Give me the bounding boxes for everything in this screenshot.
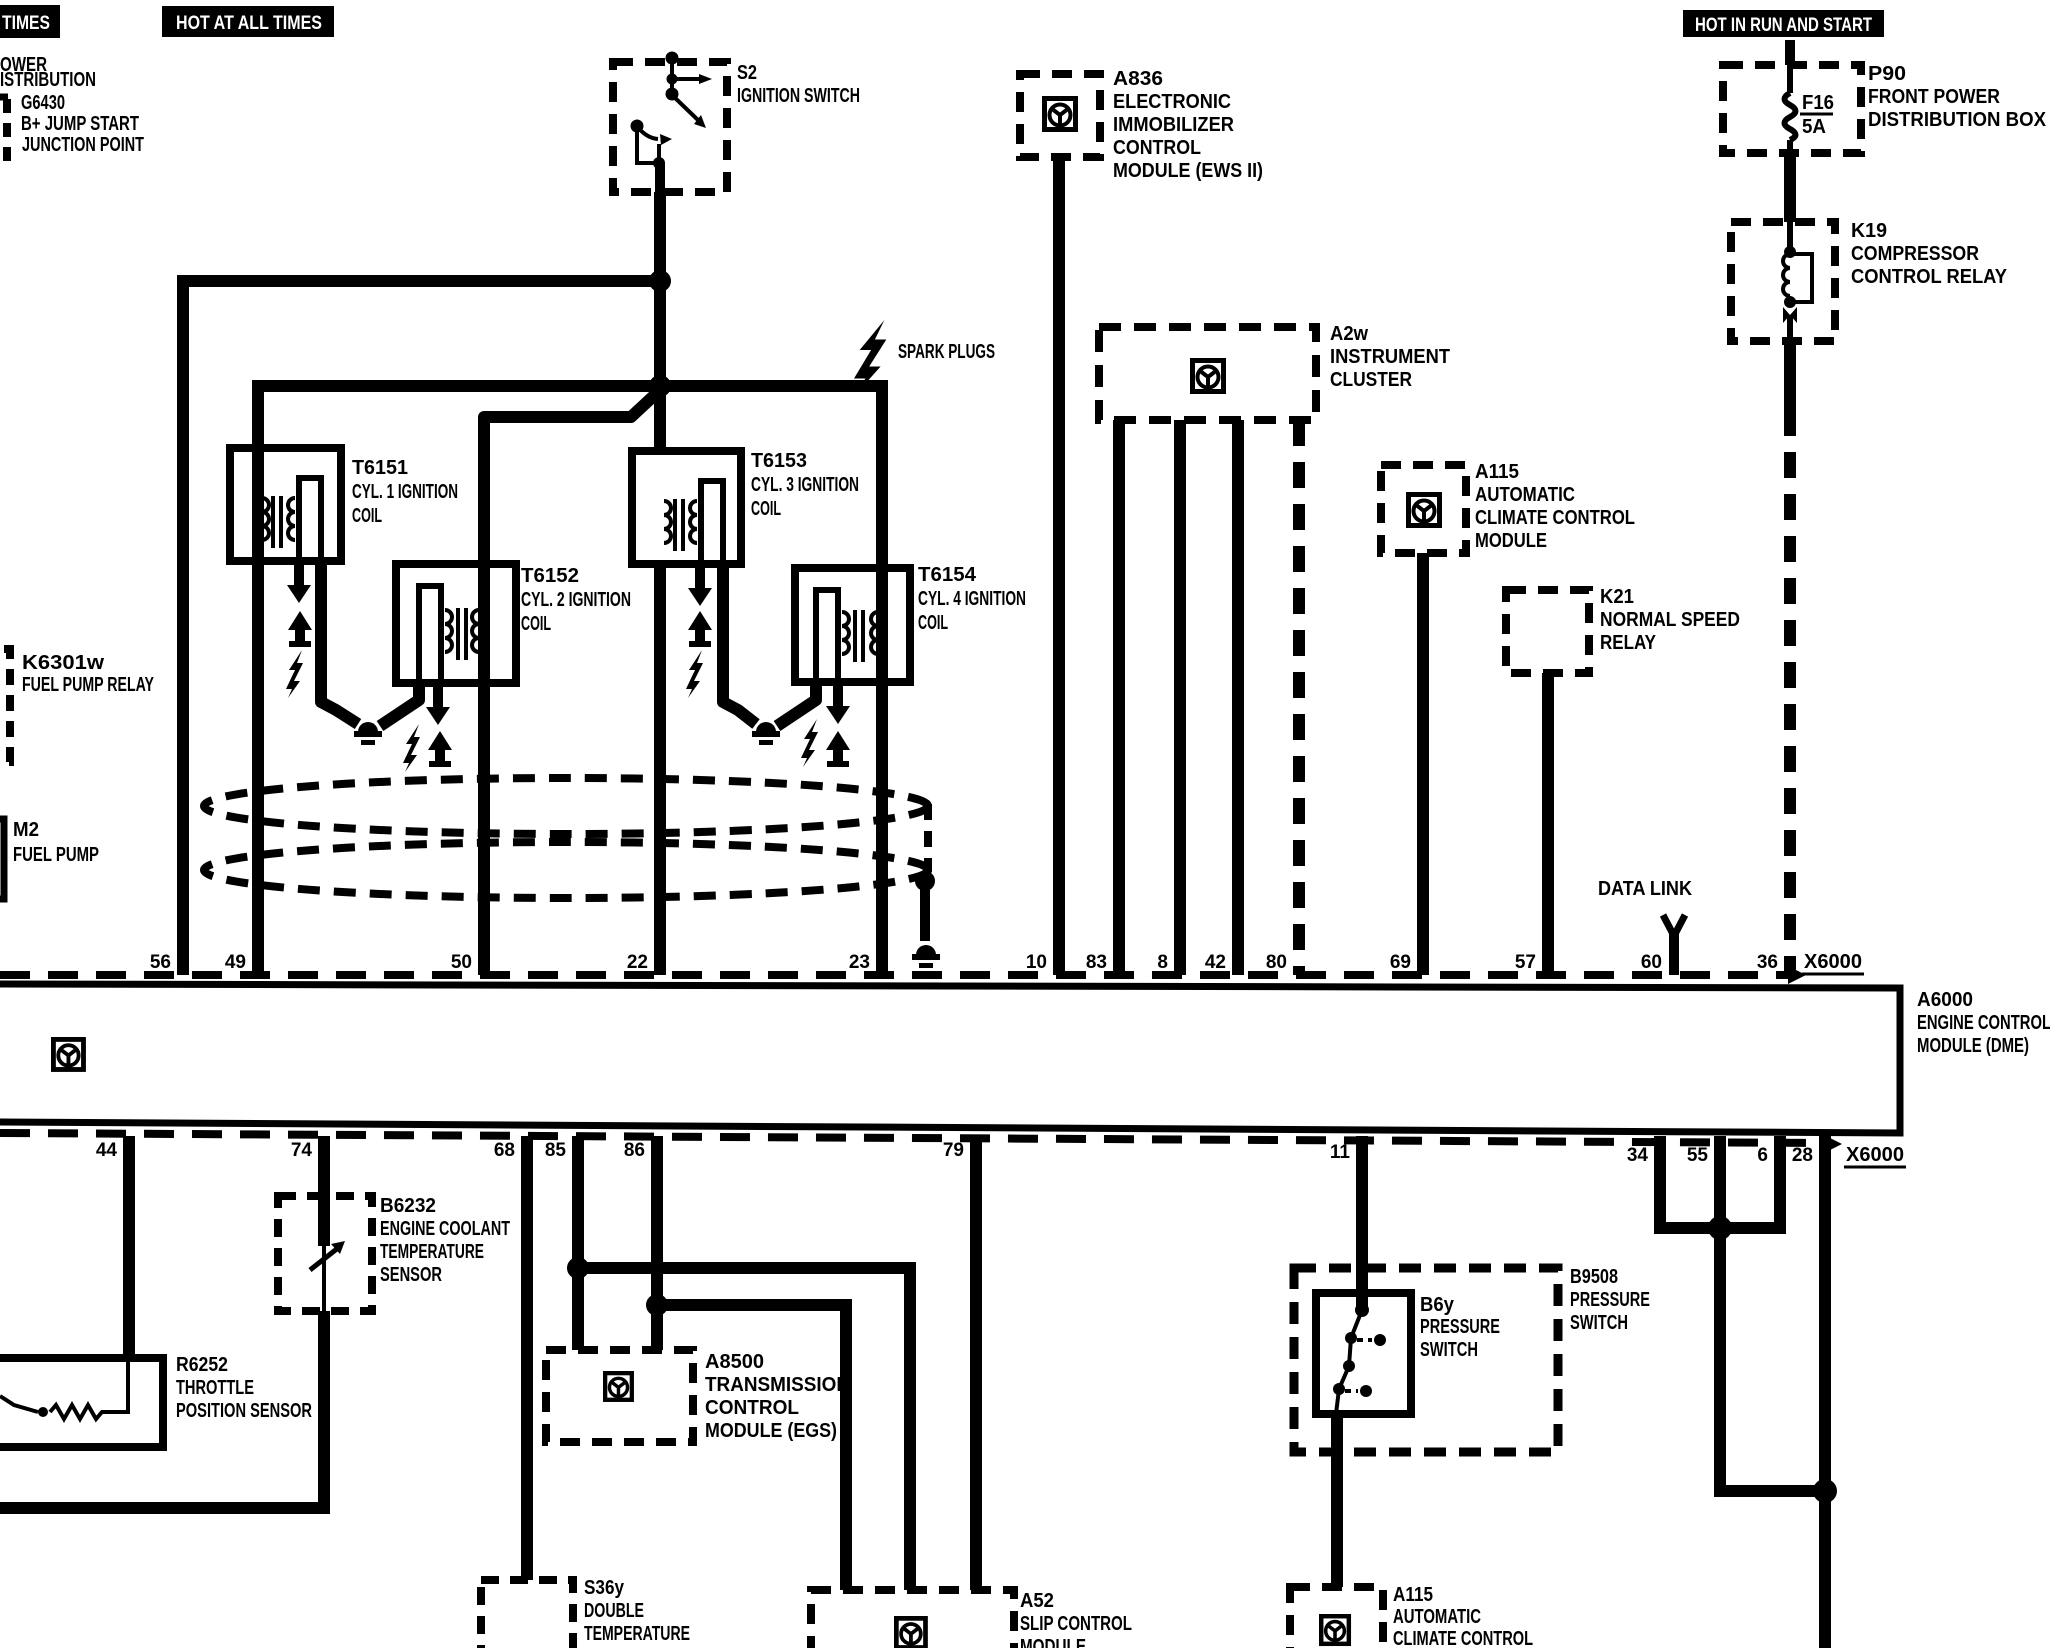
label T6153 CYL. 3 IGNITION COIL (751, 450, 859, 520)
node: junction on pin 28 wire (1813, 1479, 1837, 1503)
svg-text:10: 10 (1026, 952, 1047, 973)
wire: pin 6 stub (1774, 1136, 1786, 1222)
label A6000 ENGINE CONTROL MODULE (DME) (1917, 989, 2050, 1057)
wire: T6153 secondary to ground (723, 564, 756, 724)
spark bolt (T6154) (801, 719, 818, 767)
svg-text:PRESSURE: PRESSURE (1570, 1289, 1650, 1311)
svg-text:F16: F16 (1802, 92, 1834, 114)
wire: pin 68 to S36y (521, 1136, 533, 1580)
svg-text:A6000: A6000 (1917, 989, 1973, 1011)
svg-text:CONTROL: CONTROL (705, 1397, 799, 1419)
svg-text:60: 60 (1641, 952, 1662, 973)
node: junction 55 (1708, 1216, 1732, 1240)
svg-text:83: 83 (1086, 952, 1107, 973)
svg-text:MODULE: MODULE (1020, 1636, 1086, 1648)
svg-text:NORMAL SPEED: NORMAL SPEED (1600, 609, 1740, 631)
svg-text:R6252: R6252 (176, 1354, 228, 1376)
svg-text:G6430: G6430 (21, 92, 65, 114)
svg-text:K19: K19 (1851, 220, 1887, 242)
X6000 connector line (top, dashed) (0, 971, 1792, 979)
ignition coil T6154 box (795, 568, 910, 682)
spark bolt (T6152) (403, 724, 420, 772)
relay K21 (dashed box) (1506, 590, 1589, 673)
wire: T6153 primary down to pin 22 (654, 564, 666, 975)
label K19 COMPRESSOR CONTROL RELAY (1851, 220, 2008, 288)
node: X6000 bottom arrowhead (1824, 1135, 1842, 1153)
svg-text:IMMOBILIZER: IMMOBILIZER (1113, 114, 1234, 136)
svg-text:A2w: A2w (1330, 323, 1368, 345)
svg-text:CYL. 4 IGNITION: CYL. 4 IGNITION (918, 588, 1026, 610)
wire: pin 85 to A8500 (572, 1136, 584, 1350)
svg-text:B6232: B6232 (380, 1195, 436, 1217)
svg-text:SENSOR: SENSOR (380, 1264, 442, 1286)
node: loom ground junction (915, 871, 935, 891)
wire: loom right edge (dashed) (924, 804, 932, 872)
spark plug arrow down (T6152) (426, 683, 450, 725)
wire: pin 28 down to edge (1819, 1136, 1831, 1648)
wire: branch 85 to A52 (578, 1268, 910, 1590)
svg-text:M2: M2 (13, 819, 39, 841)
wire: T6154 secondary to ground (777, 682, 816, 726)
wire: pin 11 to B6y (1356, 1136, 1368, 1310)
svg-text:B+ JUMP START: B+ JUMP START (21, 113, 139, 135)
svg-text:A836: A836 (1113, 68, 1163, 90)
compressor control relay K19 (dashed box) (1731, 222, 1835, 341)
spark plug arrow up (T6153) (688, 611, 712, 647)
svg-text:T6151: T6151 (352, 457, 408, 479)
svg-text:TRANSMISSION: TRANSMISSION (705, 1374, 850, 1396)
pressure switch B6y (solid box) (1316, 1293, 1411, 1414)
svg-text:FUEL PUMP: FUEL PUMP (13, 844, 99, 866)
wire: loom junction to ground (920, 881, 930, 941)
label T6152 CYL. 2 IGNITION COIL (521, 565, 631, 635)
svg-text:X6000: X6000 (1846, 1144, 1904, 1166)
svg-text:ELECTRONIC: ELECTRONIC (1113, 91, 1231, 113)
spark bolt (T6151) (286, 650, 303, 698)
node: junction dot 2 (649, 375, 671, 397)
wire: coil feed bus (to T6151 and T6154) (258, 386, 882, 568)
pressure switch B9508 (dashed box) (1294, 1268, 1558, 1452)
fuel pump M2 (box cut at left edge) (0, 819, 99, 899)
svg-text:FUEL PUMP RELAY: FUEL PUMP RELAY (22, 674, 154, 696)
label B6y PRESSURE SWITCH (1420, 1294, 1500, 1361)
svg-text:CYL. 2 IGNITION: CYL. 2 IGNITION (521, 589, 631, 611)
wire: diagonal branch to T6152 (484, 390, 660, 564)
svg-text:INSTRUMENT: INSTRUMENT (1330, 346, 1450, 368)
svg-text:P90: P90 (1868, 63, 1906, 85)
wire: S2 output down to coils feed (654, 192, 666, 451)
svg-text:86: 86 (624, 1140, 645, 1161)
label X6000 (bottom) (1844, 1144, 1906, 1167)
svg-text:55: 55 (1687, 1145, 1709, 1166)
spark plug arrow down (T6154) (826, 682, 850, 724)
svg-text:6: 6 (1757, 1145, 1768, 1166)
wire: T6154 primary down to pin 23 (876, 568, 888, 975)
wire: K19 output solid (1784, 341, 1796, 410)
svg-text:8: 8 (1157, 952, 1168, 973)
fuel pump relay K6301w (dashed box cut at left edge) (0, 649, 154, 762)
svg-text:S36y: S36y (584, 1577, 625, 1599)
harness loom dashed ellipse (bottom) (204, 842, 928, 898)
node: data link fork (1663, 915, 1685, 936)
svg-text:A115: A115 (1475, 461, 1519, 483)
svg-text:COIL: COIL (751, 498, 781, 520)
svg-text:T6152: T6152 (521, 565, 579, 587)
label A8500 TRANSMISSION CONTROL MODULE (EGS) (705, 1351, 850, 1442)
svg-text:THROTTLE: THROTTLE (176, 1377, 254, 1399)
svg-text:CONTROL RELAY: CONTROL RELAY (1851, 266, 2008, 288)
wire: pin 86 to A8500 (651, 1136, 663, 1350)
svg-text:49: 49 (225, 952, 246, 973)
svg-text:CLUSTER: CLUSTER (1330, 369, 1412, 391)
svg-text:69: 69 (1390, 952, 1411, 973)
label X6000 (top) (1802, 951, 1864, 974)
wire: pin 79 to A52 (970, 1136, 982, 1590)
svg-text:SWITCH: SWITCH (1420, 1339, 1478, 1361)
banner: HOT AT ALL TIMES (cut, left) (0, 5, 60, 38)
wire: A115 to pin 69 (1417, 553, 1429, 975)
svg-text:K21: K21 (1600, 586, 1634, 608)
svg-text:68: 68 (494, 1140, 515, 1161)
svg-text:JUNCTION POINT: JUNCTION POINT (22, 134, 144, 156)
svg-text:DOUBLE: DOUBLE (584, 1600, 644, 1622)
svg-text:MODULE (EWS II): MODULE (EWS II) (1113, 160, 1263, 182)
engine control module A6000 (DME) bar (0, 984, 1900, 1133)
svg-text:X6000: X6000 (1804, 951, 1862, 973)
label K21 NORMAL SPEED RELAY (1600, 586, 1740, 654)
wire: branch to pin 56 (183, 281, 660, 975)
svg-text:A115: A115 (1393, 1584, 1433, 1606)
harness loom dashed ellipse (top) (204, 778, 928, 834)
svg-text:COIL: COIL (521, 613, 551, 635)
svg-text:MODULE: MODULE (1475, 530, 1547, 552)
svg-text:TIMES: TIMES (2, 13, 50, 34)
svg-text:HOT IN RUN AND START: HOT IN RUN AND START (1695, 15, 1872, 36)
coolant temperature sensor B6232 (dashed box) (278, 1196, 372, 1311)
svg-text:AUTOMATIC: AUTOMATIC (1393, 1606, 1481, 1628)
spark bolt (T6153) (686, 650, 703, 698)
front power distribution box P90 (dashed) (1723, 65, 1861, 153)
svg-text:PRESSURE: PRESSURE (1420, 1316, 1500, 1338)
svg-text:SWITCH: SWITCH (1570, 1312, 1628, 1334)
node: junction on pin 85 wire (567, 1257, 589, 1279)
svg-text:IGNITION SWITCH: IGNITION SWITCH (737, 85, 860, 107)
svg-text:B6y: B6y (1420, 1294, 1455, 1316)
svg-text:FRONT POWER: FRONT POWER (1868, 86, 2000, 108)
label A52 SLIP CONTROL MODULE (1020, 1590, 1132, 1648)
spark bolt (spark plugs legend) (854, 320, 886, 392)
wire: K21 to pin 57 (1542, 673, 1554, 975)
label T6151 CYL. 1 IGNITION COIL (352, 457, 458, 527)
wire: junction down and right to pin 28 wire (1720, 1228, 1825, 1491)
ground: coils 1/2 (354, 722, 382, 745)
wire: feed stub above P90 (1785, 40, 1795, 65)
label S2 IGNITION SWITCH (737, 62, 860, 107)
svg-text:SPARK PLUGS: SPARK PLUGS (898, 341, 995, 363)
svg-text:34: 34 (1627, 1145, 1649, 1166)
svg-text:MODULE (DME): MODULE (DME) (1917, 1035, 2029, 1057)
wire: cluster to pin 80 (dashed) (1293, 420, 1305, 975)
wire: B6y output to A115 (1331, 1414, 1343, 1587)
svg-text:ISTRIBUTION: ISTRIBUTION (0, 69, 96, 91)
instrument cluster A2w (dashed box) (1099, 327, 1316, 420)
pin numbers (top row) (150, 952, 1778, 973)
banner: HOT AT ALL TIMES (162, 6, 334, 37)
wire: K19 to pin 36 (dashed) (1784, 410, 1796, 975)
svg-text:T6153: T6153 (751, 450, 807, 472)
svg-text:79: 79 (943, 1140, 964, 1161)
label A2w INSTRUMENT CLUSTER (1330, 323, 1450, 391)
svg-text:57: 57 (1515, 952, 1536, 973)
label: POWER DISTRIBUTION legend (0, 54, 96, 91)
connector icon inside ECM (53, 1039, 83, 1069)
transmission control module A8500 (dashed box) (546, 1350, 693, 1442)
svg-text:ENGINE COOLANT: ENGINE COOLANT (380, 1218, 510, 1240)
label fuse F16 5A (1800, 92, 1834, 138)
svg-text:CONTROL: CONTROL (1113, 137, 1201, 159)
label S36y DOUBLE TEMPERATURE (584, 1577, 690, 1645)
spark plug arrow up (T6151) (288, 611, 312, 647)
wire: cluster to pin 42 (1232, 420, 1244, 975)
ignition coil T6152 box (396, 564, 516, 683)
wire: cluster to pin 83 (1113, 420, 1125, 975)
ignition switch S2 (dashed box) (613, 52, 727, 197)
svg-text:ENGINE CONTROL: ENGINE CONTROL (1917, 1012, 2050, 1034)
spark plug arrow up (T6152) (428, 731, 452, 767)
svg-text:T6154: T6154 (918, 564, 977, 586)
svg-text:B9508: B9508 (1570, 1266, 1618, 1288)
spark plug arrow down (T6151) (287, 561, 311, 603)
svg-text:5A: 5A (1802, 116, 1826, 138)
wire: T6152 primary down to pin 50 (478, 564, 490, 975)
svg-text:42: 42 (1205, 952, 1226, 973)
svg-text:80: 80 (1266, 952, 1287, 973)
spark plug arrow up (T6154) (826, 731, 850, 767)
svg-text:44: 44 (96, 1140, 118, 1161)
ground: coils 3/4 (752, 722, 780, 745)
wire: branch 86 to A52 (657, 1305, 846, 1590)
double temperature switch S36y (dashed box, cut at bottom) (481, 1580, 573, 1648)
banner: HOT IN RUN AND START (1683, 10, 1884, 37)
slip control module A52 (dashed box, cut at bottom) (811, 1590, 1014, 1648)
immobilizer module A836 (dashed box) (1020, 74, 1100, 157)
svg-text:A52: A52 (1020, 1590, 1054, 1612)
svg-text:CYL. 3 IGNITION: CYL. 3 IGNITION (751, 474, 859, 496)
label A836 ELECTRONIC IMMOBILIZER CONTROL MODULE (EWS II) (1113, 68, 1263, 182)
wire: pin 34 stub (1654, 1136, 1666, 1222)
throttle position sensor R6252 (box cut at left edge) (0, 1358, 163, 1447)
node G6430 B+ jump start junction point (dashed bracket, cut at left edge) (0, 92, 144, 168)
svg-text:CYL. 1 IGNITION: CYL. 1 IGNITION (352, 481, 458, 503)
wire: pin 44 to R6252 (123, 1136, 135, 1358)
label B9508 PRESSURE SWITCH (1570, 1266, 1650, 1334)
svg-text:DATA LINK: DATA LINK (1598, 878, 1692, 900)
svg-text:K6301w: K6301w (22, 652, 104, 674)
label B6232 ENGINE COOLANT TEMPERATURE SENSOR (380, 1195, 510, 1286)
wire: pin 74 into B6232 (318, 1136, 330, 1246)
wire: cluster to pin 8 (1174, 420, 1186, 975)
svg-text:COIL: COIL (352, 505, 382, 527)
pin numbers (bottom row) (96, 1140, 1813, 1166)
svg-text:74: 74 (291, 1140, 313, 1161)
svg-text:36: 36 (1757, 952, 1778, 973)
spark plug arrow down (T6153) (688, 564, 712, 606)
svg-text:HOT AT ALL TIMES: HOT AT ALL TIMES (176, 13, 322, 34)
svg-text:POSITION SENSOR: POSITION SENSOR (176, 1400, 312, 1422)
ground: loom shield (912, 945, 940, 968)
wire: B6232 return to left edge (0, 1311, 324, 1508)
wire: T6151 primary down to pin 49 (252, 448, 264, 975)
X6000 connector line (bottom, dashed) (0, 1133, 1822, 1143)
label P90 FRONT POWER DISTRIBUTION BOX (1868, 63, 2047, 131)
svg-text:TEMPERATURE: TEMPERATURE (584, 1623, 690, 1645)
node: junction dot 1 (649, 270, 671, 292)
svg-text:DISTRIBUTION BOX: DISTRIBUTION BOX (1868, 109, 2047, 131)
svg-text:MODULE (EGS): MODULE (EGS) (705, 1420, 837, 1442)
wire: T6151 secondary to ground (321, 561, 358, 724)
wire: T6152 secondary to ground (380, 683, 419, 726)
svg-text:SLIP CONTROL: SLIP CONTROL (1020, 1613, 1132, 1635)
svg-text:28: 28 (1792, 1145, 1813, 1166)
svg-text:COIL: COIL (918, 612, 948, 634)
climate control module A115 (dashed box, top) (1381, 465, 1466, 553)
svg-text:TEMPERATURE: TEMPERATURE (380, 1241, 484, 1263)
label A115 AUTOMATIC CLIMATE CONTROL (bottom) (1393, 1584, 1533, 1648)
ignition coil T6151 box (230, 448, 341, 561)
node: X6000 top arrowhead (1788, 966, 1806, 984)
svg-text:23: 23 (849, 952, 870, 973)
svg-text:CLIMATE CONTROL: CLIMATE CONTROL (1393, 1628, 1533, 1648)
svg-text:S2: S2 (737, 62, 757, 84)
node: junction on pin 86 wire (646, 1294, 668, 1316)
svg-text:11: 11 (1330, 1142, 1351, 1163)
label T6154 CYL. 4 IGNITION COIL (918, 564, 1026, 634)
ignition coil T6153 box (632, 451, 741, 564)
svg-text:50: 50 (451, 952, 472, 973)
svg-text:85: 85 (545, 1140, 567, 1161)
svg-text:CLIMATE CONTROL: CLIMATE CONTROL (1475, 507, 1635, 529)
climate control module A115 (dashed box, bottom) (1290, 1587, 1383, 1648)
svg-text:COMPRESSOR: COMPRESSOR (1851, 243, 1979, 265)
label A115 AUTOMATIC CLIMATE CONTROL MODULE (1475, 461, 1635, 552)
wire: A836 to pin 10 (1053, 157, 1065, 975)
svg-text:AUTOMATIC: AUTOMATIC (1475, 484, 1575, 506)
wire: pin 55 stub (1714, 1136, 1726, 1233)
svg-text:RELAY: RELAY (1600, 632, 1657, 654)
wire: 34/55/6 common bar (1654, 1222, 1786, 1234)
svg-text:22: 22 (627, 952, 648, 973)
svg-text:56: 56 (150, 952, 171, 973)
wire: data link stub to pin 60 (1669, 933, 1679, 975)
label R6252 THROTTLE POSITION SENSOR (176, 1354, 312, 1422)
wire: P90 to K19 (1784, 153, 1796, 222)
svg-text:A8500: A8500 (705, 1351, 764, 1373)
